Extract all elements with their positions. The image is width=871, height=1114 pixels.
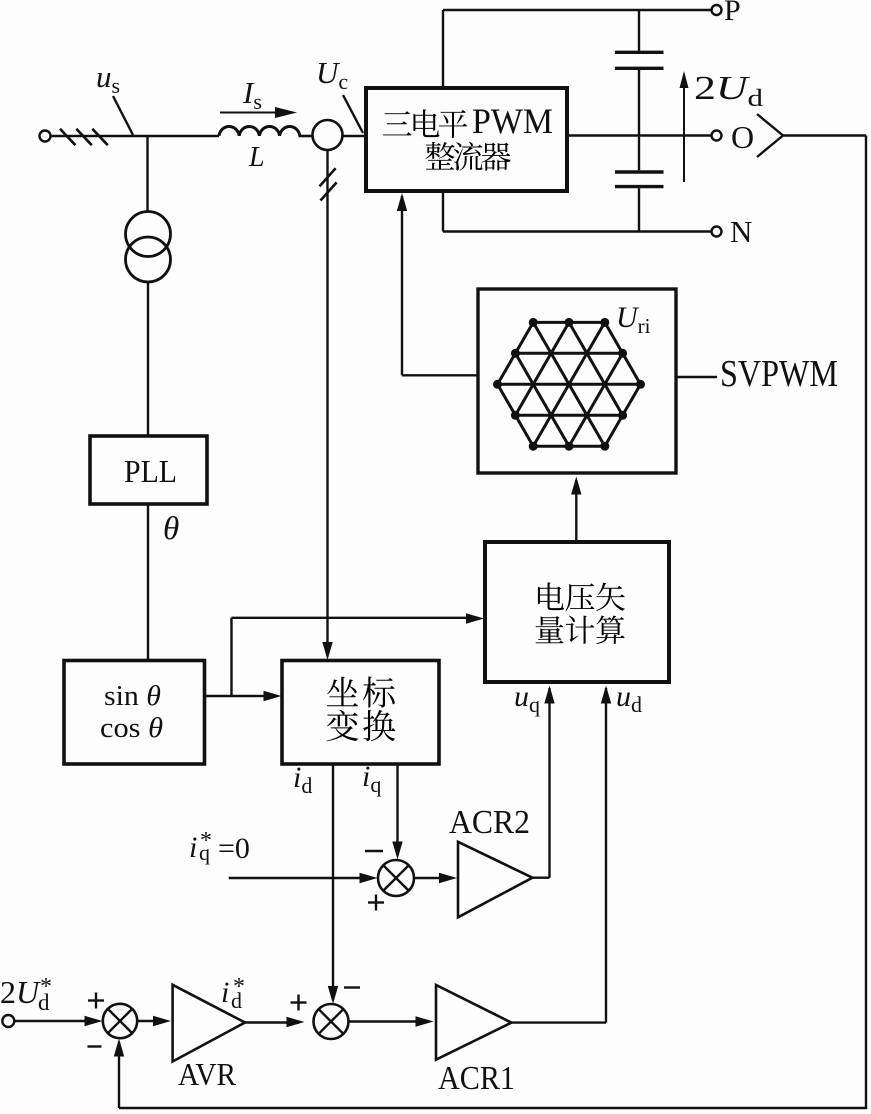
capacitor C1 [615, 52, 664, 68]
vvc to SVPWM wire [571, 477, 581, 543]
amplifier AVR [173, 985, 245, 1062]
minus sign [365, 850, 383, 852]
2Ud arrow [680, 71, 689, 182]
N rail wire [443, 230, 712, 232]
capacitor C2 [615, 172, 664, 187]
wire [638, 10, 640, 51]
rectifier label line2 [425, 142, 510, 171]
amplifier ACR2 [458, 842, 533, 918]
vvc left input wire [232, 613, 485, 696]
wire [299, 135, 313, 138]
minus sign [88, 1045, 102, 1047]
amplifier ACR1 [436, 985, 511, 1060]
svg-text:N: N [730, 214, 752, 249]
wire [326, 150, 328, 652]
SVPWM box [478, 289, 676, 473]
transformer T1 [126, 212, 171, 283]
ct label line1 [327, 677, 395, 708]
svg-text:SVPWM: SVPWM [720, 353, 838, 395]
break mark [757, 114, 783, 157]
voltage vector calc box [485, 542, 669, 682]
iq wire [392, 764, 402, 860]
vvc label line1 [538, 582, 625, 611]
svg-text:P: P [724, 0, 741, 27]
rectifier label line1 [383, 101, 553, 141]
wire [51, 135, 220, 138]
svg-text:id*: id* [221, 974, 245, 1013]
ACR1 output wire [511, 686, 611, 1023]
three-phase hatch marks [60, 129, 108, 145]
SJ1 to AVR wire [137, 1016, 171, 1026]
feedback wire right [865, 136, 867, 1109]
SVPWM right stub [676, 376, 717, 378]
P rail wire [443, 9, 712, 11]
svg-text:ACR1: ACR1 [438, 1060, 515, 1097]
ct label line2 [327, 710, 396, 742]
current sensor [313, 120, 343, 150]
svg-text:ACR2: ACR2 [449, 804, 530, 841]
id wire [328, 764, 338, 1004]
SJ3 to ACR2 wire [414, 873, 457, 883]
iq* input wire [229, 873, 378, 883]
svg-text:AVR: AVR [178, 1056, 237, 1092]
ACR2 output wire [533, 686, 555, 878]
plus sign [88, 993, 104, 1009]
AVR to SJ2 wire [245, 1017, 305, 1027]
svg-text:2Ud*: 2Ud* [0, 974, 52, 1015]
plus sign [368, 895, 384, 911]
space vector hexagon [498, 322, 641, 446]
svg-text:L: L [248, 142, 265, 173]
wire [638, 188, 640, 231]
terminal O [712, 131, 722, 141]
plus sign [291, 995, 307, 1011]
wire [343, 135, 367, 138]
wire [442, 191, 444, 232]
SVPWM to rectifier wire [397, 193, 478, 375]
arrow into transform box [322, 642, 332, 660]
O rail wire [567, 134, 712, 136]
wire [442, 10, 444, 88]
wire [147, 504, 149, 660]
2Ud* input wire [14, 1016, 102, 1026]
coord transform box [282, 661, 439, 765]
SJ2 to ACR1 wire [349, 1016, 434, 1026]
svg-text:O: O [731, 119, 754, 155]
summing junction SJ1 [103, 1004, 137, 1038]
double-slash mark [320, 168, 337, 200]
rectifier box [366, 88, 567, 191]
summing junction SJ3 [378, 860, 414, 896]
input terminal 2Ud* [2, 1015, 14, 1027]
terminal N [712, 227, 722, 237]
svg-text:PWM: PWM [472, 101, 553, 141]
wire [147, 282, 149, 436]
PLL box [90, 436, 207, 504]
sincos output wire [205, 691, 282, 701]
sincos box [64, 661, 205, 765]
feedback wire bottom [119, 1107, 867, 1109]
Is arrow [220, 107, 297, 118]
svg-text:θ: θ [163, 511, 179, 547]
svg-text:cos θ: cos θ [100, 712, 163, 744]
terminal P [712, 5, 722, 15]
input terminal [40, 131, 51, 142]
summing junction SJ2 [314, 1004, 349, 1039]
Uc leader line [343, 95, 363, 133]
minus sign [344, 986, 360, 988]
hexagon vertex dots [493, 318, 645, 451]
wire [783, 134, 866, 136]
svg-text:sin θ: sin θ [104, 680, 161, 712]
svg-text:PLL: PLL [124, 453, 177, 489]
inductor L [219, 127, 300, 136]
us leader line [113, 96, 133, 135]
node A junction [146, 136, 148, 212]
vvc label line2 [536, 615, 625, 644]
wire [638, 70, 640, 170]
feedback riser [114, 1039, 124, 1109]
